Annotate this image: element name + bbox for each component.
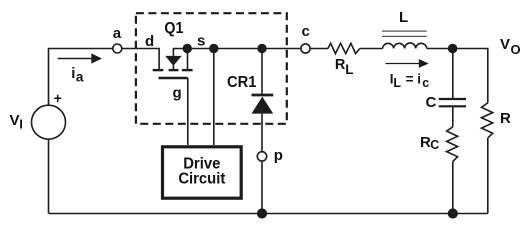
svg-text:O: O (511, 42, 521, 57)
svg-text:g: g (173, 85, 182, 102)
svg-text:V: V (500, 36, 510, 53)
junction dot bottom RC branch (448, 208, 458, 218)
svg-text:V: V (10, 112, 20, 129)
wire node p to bottom rail (261, 161, 263, 213)
voltage source VI (32, 105, 66, 139)
wire source to drive circuit (213, 49, 215, 146)
diode CR1 (252, 94, 274, 97)
wire CR1 anode-cathode branch (261, 49, 263, 94)
svg-text:CR1: CR1 (227, 74, 256, 91)
wire right-tick vertical (187, 49, 189, 70)
resistor RC (447, 127, 458, 162)
wire gate vertical to drive circuit (187, 78, 189, 145)
svg-text:i: i (71, 65, 75, 82)
svg-text:c: c (422, 76, 429, 90)
svg-text:C: C (426, 94, 437, 111)
junction dot CR1 top (257, 44, 266, 53)
svg-text:C: C (430, 138, 439, 152)
wire arrow-corner to node c (173, 49, 301, 56)
junction dot at right tick (183, 44, 192, 53)
svg-text:R: R (500, 110, 511, 127)
current arrow ia (58, 53, 102, 63)
svg-text:L: L (393, 76, 401, 90)
wire R to bottom rail (487, 138, 489, 214)
wire VI top vertical (49, 49, 113, 106)
capacitor C (439, 99, 466, 106)
svg-text:I: I (19, 116, 23, 131)
wire RC to bottom rail (452, 162, 454, 214)
svg-text:p: p (274, 147, 283, 164)
svg-text:+: + (54, 90, 62, 106)
svg-text:Q1: Q1 (164, 20, 183, 37)
svg-text:c: c (302, 23, 310, 40)
dashed switch boundary box (136, 13, 287, 124)
wire node a to drain corner (122, 49, 159, 70)
svg-text:s: s (197, 32, 205, 49)
inductor L coil (383, 43, 427, 49)
junction dot output node (448, 44, 458, 54)
node a (113, 44, 122, 53)
node p (257, 152, 266, 161)
svg-text:a: a (113, 25, 122, 42)
wire L to output corner (427, 49, 488, 103)
svg-text:R: R (335, 57, 346, 73)
wire bottom rail (49, 213, 488, 215)
current arrow IL (385, 59, 428, 68)
junction dot at s node (209, 44, 218, 53)
svg-text:L: L (345, 62, 353, 77)
transistor Q1 (153, 70, 193, 78)
svg-text:a: a (76, 70, 84, 85)
drive circuit box (163, 147, 242, 198)
wire node c to RL (310, 48, 328, 50)
wire RL to L (360, 48, 383, 50)
resistor R (482, 103, 493, 138)
node c (301, 44, 310, 53)
svg-text:Circuit: Circuit (178, 171, 226, 188)
transistor Q1 body arrow (165, 56, 182, 66)
svg-text:i: i (417, 72, 421, 87)
wire output node to capacitor (452, 49, 454, 99)
wire diode to node p (261, 114, 263, 152)
resistor RL (328, 43, 360, 53)
wire VI bottom vertical (48, 139, 50, 213)
svg-text:=: = (406, 72, 414, 87)
junction dot bottom CR1 branch (257, 208, 267, 218)
svg-text:d: d (145, 33, 154, 50)
wire capacitor to RC (452, 107, 454, 127)
inductor L core lines (382, 31, 427, 36)
svg-text:L: L (399, 9, 408, 26)
